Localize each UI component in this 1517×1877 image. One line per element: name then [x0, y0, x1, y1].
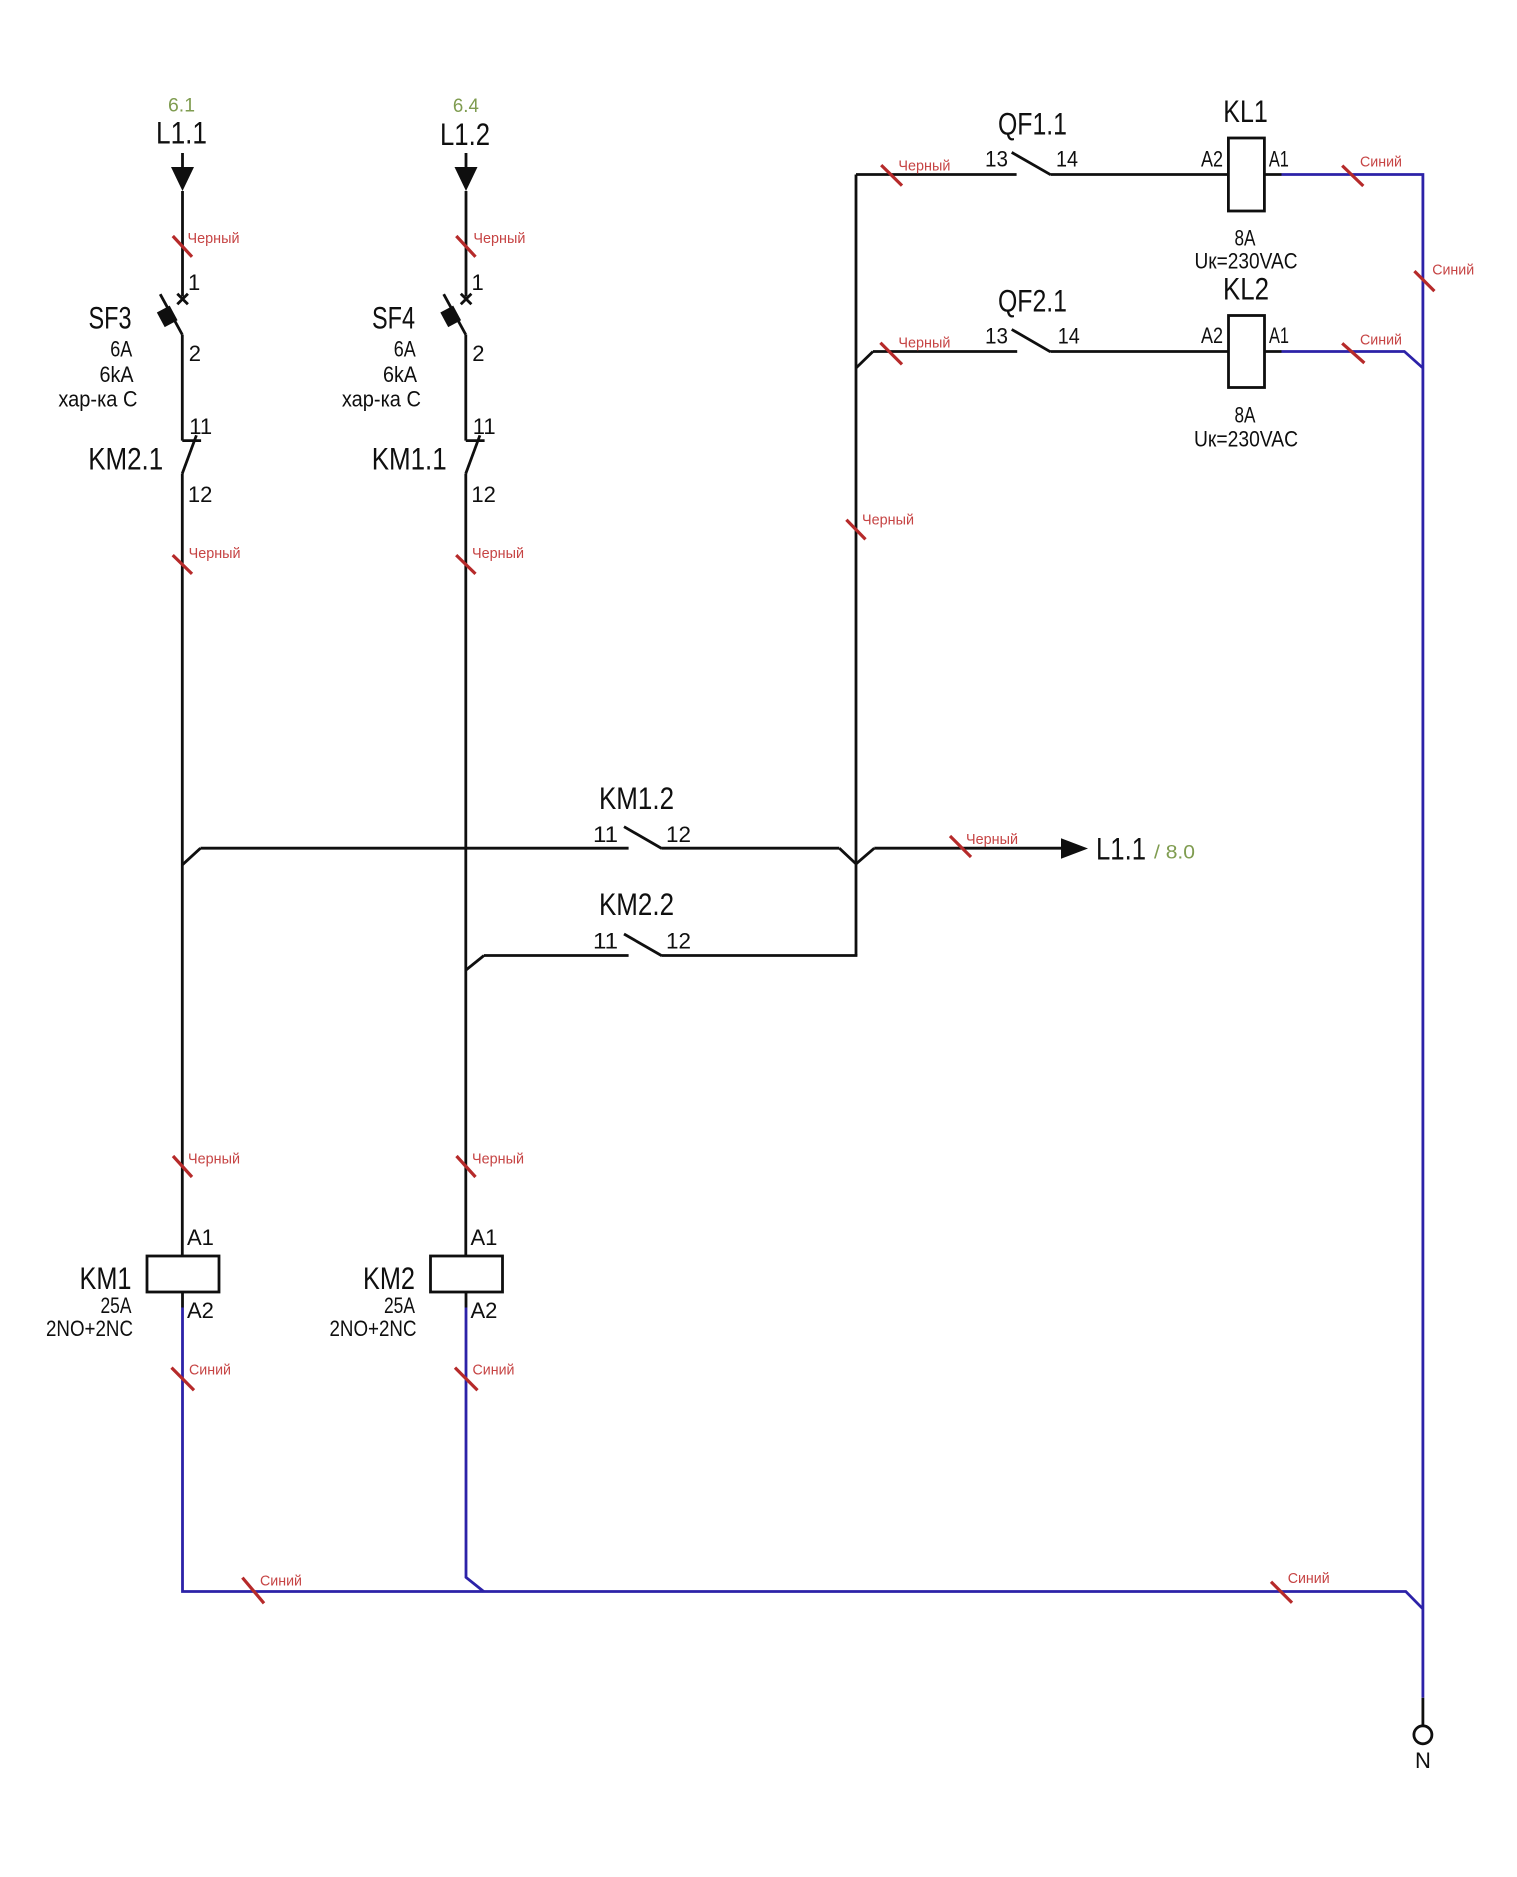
wire color slash	[172, 1368, 195, 1391]
svg-text:Черный: Черный	[862, 512, 914, 529]
wire color slash	[457, 1156, 476, 1177]
interruption-point arrow L1.2	[455, 153, 478, 191]
svg-text:KL1: KL1	[1223, 93, 1268, 129]
svg-text:Uк=230VAC: Uк=230VAC	[1194, 427, 1298, 452]
contact KM2.1 (NC)	[88, 414, 212, 507]
contact KM1.1 (NC)	[372, 414, 496, 507]
svg-text:хар-ка C: хар-ка C	[342, 387, 421, 412]
svg-text:SF3: SF3	[89, 300, 132, 336]
wire left	[201, 847, 629, 850]
svg-text:14: 14	[1056, 147, 1078, 172]
svg-text:хар-ка C: хар-ка C	[58, 387, 137, 412]
svg-text:2: 2	[472, 341, 484, 366]
svg-text:Синий: Синий	[260, 1573, 302, 1590]
svg-text:8A: 8A	[1235, 403, 1256, 428]
wire color slash	[242, 1578, 264, 1604]
blade	[182, 435, 196, 473]
wire color slash	[456, 555, 475, 574]
wire distribution column (black vertical)	[855, 175, 858, 956]
svg-text:Черный: Черный	[188, 1151, 240, 1168]
wire left	[484, 954, 629, 957]
svg-text:KL2: KL2	[1223, 271, 1269, 307]
contact KM2.2 (NO) row	[484, 886, 857, 956]
wire to KL2 A2	[1050, 350, 1228, 353]
wire KL1 A1 stub (black)	[1264, 173, 1281, 176]
wire (blue) KM2 A2 down to bottom bus	[466, 1308, 484, 1592]
wire KM2.1 pin12 down to KM1 coil A1	[181, 474, 184, 1257]
svg-text:2NO+2NC: 2NO+2NC	[330, 1316, 417, 1341]
release element (filled)	[440, 306, 461, 328]
wire color slash	[455, 1368, 478, 1391]
svg-text:N: N	[1415, 1748, 1431, 1773]
svg-text:6.1: 6.1	[168, 95, 195, 117]
svg-text:KM2.1: KM2.1	[88, 441, 163, 477]
svg-text:KM2: KM2	[363, 1260, 415, 1296]
wire KL2 A1 stub (black)	[1265, 350, 1282, 353]
svg-text:25A: 25A	[101, 1293, 132, 1318]
wire right to distribution column	[662, 954, 857, 957]
terminal N	[1414, 1698, 1432, 1773]
fixed contact x-cross	[177, 294, 188, 305]
svg-text:12: 12	[666, 929, 691, 954]
svg-text:QF2.1: QF2.1	[998, 283, 1067, 319]
wire color slash	[1342, 166, 1363, 186]
svg-text:KM1.2: KM1.2	[599, 780, 674, 816]
release element (filled)	[157, 306, 178, 328]
blade	[624, 934, 662, 956]
svg-text:11: 11	[593, 822, 618, 847]
wire color slash	[846, 520, 865, 540]
svg-text:12: 12	[188, 482, 212, 507]
svg-text:A1: A1	[471, 1225, 498, 1250]
svg-text:A1: A1	[1269, 323, 1289, 348]
svg-text:6A: 6A	[110, 337, 132, 362]
interruption-point arrow L1.1 / 8.0	[1061, 838, 1088, 858]
svg-text:1: 1	[188, 270, 200, 295]
wire (blue) KM1 A2 down and bottom N bus	[183, 1308, 1423, 1609]
wire color slash	[880, 343, 902, 365]
svg-text:Черный: Черный	[966, 831, 1018, 848]
svg-text:Черный: Черный	[898, 157, 950, 174]
coil KM1	[46, 1225, 219, 1341]
svg-text:6kA: 6kA	[383, 362, 417, 387]
relay KL1	[1195, 93, 1298, 274]
svg-text:Черный: Черный	[473, 230, 525, 247]
wire color slash	[1414, 271, 1434, 291]
svg-text:25A: 25A	[384, 1293, 415, 1318]
wire KM2 A2 stub (black)	[465, 1292, 468, 1308]
svg-text:Черный: Черный	[472, 545, 524, 562]
blade	[466, 435, 480, 473]
wire color slash (col1 top)	[173, 236, 192, 257]
contact QF1.1 blade (NO)	[1012, 152, 1051, 174]
breaker SF3	[58, 270, 201, 412]
fixed contact x-cross	[461, 294, 472, 305]
wire (blue) KL2 A1 merging right column	[1282, 352, 1423, 368]
wire (blue) KL1 A1 to right column	[1282, 175, 1423, 1698]
svg-text:6A: 6A	[394, 337, 416, 362]
wire from column to contact	[856, 173, 1017, 176]
wire L1.1 down to SF3 pin 1	[181, 191, 184, 297]
terminal bar	[182, 439, 201, 442]
svg-text:11: 11	[593, 929, 618, 954]
wire color slash	[1342, 343, 1364, 363]
svg-text:Черный: Черный	[472, 1151, 524, 1168]
wire color slash	[173, 555, 192, 574]
svg-text:13: 13	[985, 324, 1008, 349]
wire to KL1 A2	[1051, 173, 1229, 176]
svg-text:Синий: Синий	[1360, 331, 1402, 348]
svg-text:11: 11	[189, 414, 212, 439]
breaker SF4	[342, 270, 485, 412]
wire KM1.1 pin12 down to KM2 coil A1	[464, 474, 467, 1257]
svg-text:A1: A1	[187, 1225, 214, 1250]
svg-text:Черный: Черный	[898, 335, 950, 352]
svg-text:A2: A2	[1201, 323, 1223, 348]
svg-text:1: 1	[472, 270, 484, 295]
wire to interruption arrow	[874, 847, 1062, 850]
QF1.1 row	[856, 106, 1228, 186]
svg-text:13: 13	[985, 147, 1008, 172]
wire jog down to junction	[839, 848, 856, 864]
coil KM2	[330, 1225, 503, 1341]
wire color slash	[456, 236, 475, 257]
svg-text:L1.1: L1.1	[1096, 831, 1146, 867]
svg-text:12: 12	[471, 482, 495, 507]
wire L1.2 down to SF4 pin 1	[465, 191, 468, 297]
contact QF2.1 blade (NO)	[1012, 329, 1051, 351]
wire KM1 A2 stub (black)	[181, 1292, 184, 1308]
wire color slash	[1271, 1582, 1292, 1603]
svg-text:L1.2: L1.2	[440, 116, 490, 152]
relay KL2	[1194, 271, 1298, 452]
svg-text:2: 2	[189, 341, 201, 366]
svg-text:A1: A1	[1269, 147, 1289, 172]
svg-text:12: 12	[666, 822, 691, 847]
QF2.1 row	[873, 283, 1229, 365]
svg-text:Синий: Синий	[1432, 261, 1474, 278]
svg-text:KM1.1: KM1.1	[372, 441, 447, 477]
blade	[624, 827, 662, 849]
blade	[160, 294, 182, 334]
svg-text:QF1.1: QF1.1	[998, 106, 1067, 142]
svg-text:2NO+2NC: 2NO+2NC	[46, 1316, 133, 1341]
wire from column branch to contact	[873, 350, 1017, 353]
svg-text:Синий: Синий	[189, 1362, 231, 1379]
wire branch to KM2.2 row	[466, 956, 484, 971]
wire color slash	[881, 165, 902, 186]
svg-text:6.4: 6.4	[453, 95, 479, 117]
svg-text:8A: 8A	[1235, 226, 1256, 251]
svg-text:A2: A2	[1201, 147, 1223, 172]
svg-text:Черный: Черный	[188, 230, 240, 247]
contact KM1.2 (NO) row	[201, 780, 857, 864]
wire jog up from junction to arrow run	[856, 848, 874, 864]
wire SF3 pin2 to KM2.1 pin11	[181, 335, 184, 441]
wire right	[662, 847, 839, 850]
svg-text:/ 8.0: / 8.0	[1154, 842, 1195, 864]
svg-text:A2: A2	[471, 1298, 498, 1323]
svg-text:Синий: Синий	[1360, 154, 1402, 171]
terminal bar	[466, 439, 485, 442]
blade	[444, 294, 466, 334]
wire color slash	[173, 1156, 192, 1177]
svg-text:Черный: Черный	[189, 545, 241, 562]
svg-text:Синий: Синий	[473, 1362, 515, 1379]
wire branch to KM1.2 row	[183, 848, 201, 865]
svg-text:6kA: 6kA	[100, 362, 134, 387]
svg-text:11: 11	[473, 414, 496, 439]
svg-text:14: 14	[1058, 324, 1080, 349]
svg-text:L1.1: L1.1	[156, 115, 207, 151]
interruption-point arrow L1.1	[171, 153, 194, 191]
wire SF4 pin2 to KM1.1 pin11	[464, 335, 467, 441]
wire branch to QF2.1 row	[856, 352, 873, 369]
wire color slash	[950, 836, 971, 857]
svg-text:A2: A2	[187, 1298, 214, 1323]
svg-text:KM2.2: KM2.2	[599, 886, 674, 922]
svg-text:Синий: Синий	[1288, 1570, 1330, 1587]
svg-text:SF4: SF4	[372, 300, 415, 336]
svg-text:KM1: KM1	[80, 1260, 132, 1296]
